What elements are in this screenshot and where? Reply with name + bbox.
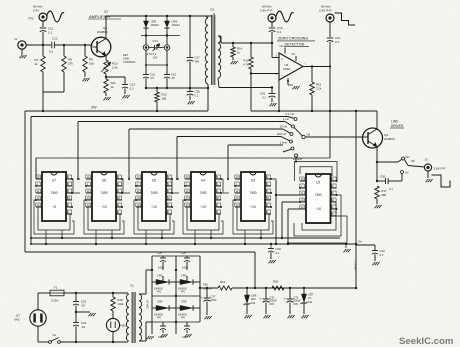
ground at C18 [188, 95, 195, 104]
svg-text:VAC: VAC [14, 317, 20, 321]
wire U3 output to U2 wrap [271, 179, 276, 181]
op-amp top pin NC [280, 44, 286, 54]
svg-text:C25: C25 [157, 251, 162, 255]
svg-text:GAIN: GAIN [123, 56, 129, 60]
svg-text:7490: 7490 [150, 191, 157, 195]
net 1Hz line [78, 117, 290, 179]
net 0.1Hz line [31, 112, 295, 244]
svg-text:1W: 1W [308, 300, 312, 304]
bridge low tie [152, 321, 200, 323]
svg-text:1 kHz: 1 kHz [280, 141, 288, 145]
switch S3 DC contact [377, 155, 410, 162]
svg-text:U5: U5 [285, 63, 289, 67]
svg-text:U6: U6 [102, 179, 106, 183]
bridge rail mid [175, 256, 177, 334]
svg-text:24 VAC: 24 VAC [146, 300, 150, 309]
svg-text:CONTROL: CONTROL [123, 60, 136, 64]
wire CR9 down [166, 28, 168, 45]
IC U4 7490 divider [191, 172, 215, 221]
capacitor C32 [259, 288, 277, 306]
svg-text:0.4V: 0.4V [33, 8, 40, 12]
wire TP3 to C19 [271, 22, 273, 28]
svg-text:1N914: 1N914 [172, 23, 181, 27]
svg-text:+: + [281, 57, 283, 61]
svg-text:÷10: ÷10 [200, 205, 206, 209]
wire C17 down [189, 61, 191, 88]
wire 20V bus corner to Q3 collector [376, 111, 378, 129]
switch S2 contact 1kHz [283, 147, 294, 152]
capacitor C11 [40, 27, 54, 35]
zero crossing detector title [277, 37, 315, 47]
wire C19 to plus input [271, 32, 279, 58]
svg-text:7490: 7490 [315, 193, 322, 197]
ground at J1 [20, 49, 27, 58]
resistor R16 [310, 67, 322, 96]
IC U7 7490 divider [42, 172, 66, 221]
IC U4 pin stubs [184, 175, 222, 214]
capacitor bridge lower left [158, 322, 166, 339]
wire U2 under-loop b [294, 195, 341, 236]
wire plug bottom to S1 [38, 326, 49, 342]
capacitor C24 [73, 321, 87, 329]
svg-text:0.25A: 0.25A [51, 298, 58, 302]
svg-text:CR6: CR6 [251, 294, 257, 298]
transistor Q3 [363, 128, 395, 148]
wire jack to ground [426, 171, 433, 182]
diode CR9 [164, 16, 180, 28]
capacitor bridge lower right [182, 322, 190, 339]
diode CR4 [152, 299, 176, 319]
wire R13 bottom to bus corner [250, 74, 252, 112]
capacitor C30 [377, 162, 402, 191]
wire mid tie [145, 87, 208, 89]
wire T1 secondary bottom to bridge [139, 322, 152, 341]
bus lower B1 [30, 237, 340, 239]
IC U7 stubs to buses [45, 230, 63, 245]
wire Q3 emitter down [376, 147, 378, 164]
svg-text:0.1: 0.1 [276, 251, 280, 255]
capacitor C21 [327, 36, 341, 44]
ground at R14 [231, 57, 238, 64]
wire T2 secondary bottom [218, 78, 219, 88]
bus 20V left segment [25, 106, 208, 111]
svg-text:+: + [259, 297, 261, 301]
ground at C27 [205, 302, 212, 320]
svg-text:LINE: LINE [391, 119, 398, 123]
svg-text:1W: 1W [251, 301, 255, 305]
bus lower B3 [25, 252, 256, 289]
bus 20V right segment [251, 110, 377, 112]
op-amp ground pin [287, 78, 300, 89]
capacitor C15 [143, 72, 155, 80]
wire stage coupling U7-U6 [72, 178, 80, 193]
svg-text:ZERO CROSSING: ZERO CROSSING [278, 37, 308, 41]
wire C21 to output node [329, 42, 331, 67]
trimmer range label [147, 53, 158, 59]
svg-text:7490: 7490 [199, 191, 206, 195]
ground bridge lower left [161, 330, 168, 338]
IC U2 7490 divider [306, 174, 331, 223]
net 100Hz line [177, 132, 287, 179]
wire clock drop to U7 [36, 158, 42, 179]
transformer T2 label [210, 8, 214, 16]
svg-text:2.8V P-P: 2.8V P-P [260, 8, 272, 12]
svg-text:−: − [281, 73, 283, 77]
bridge rail right [199, 256, 201, 322]
svg-text:390: 390 [195, 59, 200, 63]
capacitor C17 [187, 16, 200, 63]
svg-text:C27: C27 [211, 294, 216, 298]
node Q4 emitter junction [105, 74, 107, 79]
trimmer capacitor C14 [149, 39, 165, 51]
transformer T1 secondary [139, 294, 142, 341]
svg-text:÷10: ÷10 [101, 205, 107, 209]
wire U2 left pin 10 feed [281, 202, 300, 239]
svg-text:2N3830: 2N3830 [384, 137, 395, 141]
ground at CR6 [245, 304, 252, 318]
svg-text:.06: .06 [171, 76, 175, 80]
svg-text:DRIVER: DRIVER [391, 124, 404, 128]
supply output label [203, 283, 212, 291]
wire stage coupling U5-U4 [172, 178, 179, 193]
switch S2 contact 10Hz [283, 129, 293, 136]
svg-text:20V: 20V [91, 106, 98, 110]
net 1kHz line [228, 141, 288, 179]
resistor R19 [218, 280, 232, 290]
ground at C20 [270, 98, 277, 107]
switch S2 contact 10kHz [295, 154, 298, 158]
resistor R8 [62, 45, 74, 72]
wire caps to tie [146, 78, 167, 88]
resistor R12 [155, 88, 167, 102]
wire T1 secondary top to bridge [139, 270, 152, 294]
ground at R17 [375, 199, 382, 208]
bridge mid tie [151, 269, 201, 297]
IC U2 pin stubs [299, 177, 338, 216]
svg-text:TP2: TP2 [28, 17, 34, 21]
transformer T2 primary [205, 16, 208, 84]
svg-text:0.1: 0.1 [130, 86, 135, 90]
svg-text:25V: 25V [153, 57, 158, 60]
wire output node down to clock rail [329, 67, 331, 159]
bridge top tie [152, 255, 200, 257]
ground at C29 [373, 254, 380, 265]
svg-text:÷10: ÷10 [315, 207, 321, 211]
svg-text:680: 680 [382, 193, 387, 197]
svg-text:DETECTOR: DETECTOR [285, 43, 305, 47]
test point TP3 [260, 5, 276, 22]
IC U6 pin stubs [85, 175, 123, 214]
ground at R11 [104, 93, 111, 100]
svg-text:NE2: NE2 [121, 323, 127, 327]
diode CR8 [143, 16, 159, 28]
svg-text:PIV: PIV [157, 317, 161, 320]
IC U3 stubs to buses [244, 230, 262, 245]
svg-text:+: + [283, 297, 285, 301]
wire U2 top wrap outer [295, 162, 338, 182]
test point TP4 [319, 5, 334, 22]
wire left nest outer [24, 111, 26, 252]
resistor R13 [243, 43, 253, 69]
svg-text:7: 7 [305, 63, 307, 66]
ground stub on B2 [344, 243, 351, 252]
wire R16 to bus [311, 95, 313, 112]
op-amp output pin NC stub [292, 52, 297, 61]
wire secondary bottom run [219, 86, 273, 88]
svg-text:100 Hz: 100 Hz [277, 132, 287, 136]
svg-text:32V: 32V [203, 283, 208, 287]
svg-text:2V: 2V [358, 240, 362, 244]
capacitor C13 [122, 83, 135, 91]
svg-text:100k: 100k [118, 302, 125, 306]
svg-text:S2: S2 [307, 132, 311, 136]
square wave at TP4 [335, 13, 356, 25]
svg-text:.02: .02 [81, 303, 85, 307]
svg-text:C12: C12 [52, 37, 58, 41]
IC U6 stubs to buses [95, 230, 113, 245]
svg-text:CR4: CR4 [157, 299, 163, 303]
svg-text:.04: .04 [150, 76, 154, 80]
svg-text:10 Hz: 10 Hz [279, 125, 287, 129]
resistor R18 [111, 293, 124, 311]
switch S3 common to jack [404, 159, 424, 167]
op-amp bottom pin to bus [278, 80, 280, 112]
IC U5 pin stubs [135, 175, 173, 214]
svg-text:NC: NC [292, 52, 296, 56]
IC U4 reset loop wiring [183, 200, 223, 234]
net 10Hz line [129, 125, 288, 179]
diode CR3 [176, 273, 200, 293]
IC U6 reset loop wiring [84, 200, 124, 234]
svg-text:20V: 20V [294, 302, 299, 306]
ground at C32 [264, 303, 271, 319]
svg-text:1k: 1k [35, 62, 39, 66]
neon lamp NE2 [106, 311, 126, 332]
svg-text:AC: AC [405, 171, 409, 175]
wire C12 to Q4 base [54, 44, 92, 46]
svg-text:CR5: CR5 [181, 299, 187, 303]
wire TP2 to C11 [42, 21, 44, 27]
svg-text:2000: 2000 [211, 298, 217, 302]
svg-text:0.1: 0.1 [48, 30, 53, 34]
wire S2 wiper to Q3 base [305, 136, 363, 138]
svg-text:F1: F1 [54, 285, 58, 289]
wire Q4 collector to top rail [105, 16, 107, 39]
wire CR2 CR3 risers [162, 270, 164, 282]
svg-text:20V: 20V [270, 302, 275, 306]
node circle right [164, 45, 169, 50]
svg-text:J3: J3 [425, 158, 428, 162]
output level label [434, 166, 446, 170]
transformer T1 label [130, 284, 134, 288]
wire C15 column down [166, 50, 168, 74]
wire cap stubs top [163, 264, 187, 282]
svg-text:NC: NC [280, 44, 284, 48]
capacitor C33 [283, 288, 301, 306]
diode CR5 [176, 299, 200, 319]
ground bridge lower right [185, 330, 192, 338]
capacitor C26 [181, 251, 190, 269]
svg-text:2.2k: 2.2k [316, 86, 322, 90]
svg-text:SET: SET [123, 53, 128, 57]
IC U5 7490 divider [142, 172, 166, 221]
square wave at J3 [432, 175, 451, 187]
input jack J1 [14, 37, 26, 49]
svg-text:PIV: PIV [157, 291, 161, 294]
switch S2 wiper [294, 128, 310, 139]
resistor R7 [35, 45, 46, 72]
ground between C23 C24 [76, 312, 96, 316]
resistor R9 [83, 45, 95, 72]
output jack J3 [424, 158, 431, 172]
svg-text:R20: R20 [273, 280, 279, 284]
wire R8 bottom [42, 72, 64, 112]
net 10kHz label [293, 157, 303, 161]
svg-text:S1: S1 [53, 333, 57, 337]
capacitor C28 on B2 [268, 243, 281, 255]
net 2V label [358, 240, 362, 244]
transistor Q4 [91, 26, 111, 57]
svg-text:0.1: 0.1 [389, 187, 393, 191]
wire 2V extension [356, 245, 375, 250]
wire plug top [38, 293, 50, 310]
svg-text:100: 100 [162, 96, 167, 100]
wire T2 primary bottom [207, 84, 209, 111]
switch S3 AC contact [401, 171, 409, 175]
fuse F1 [50, 285, 64, 302]
svg-text:0.1: 0.1 [380, 253, 384, 257]
resistor R20 [272, 280, 284, 290]
bus lower B2 [30, 243, 356, 245]
capacitor C27 [200, 287, 217, 302]
zener CR6 [244, 288, 257, 305]
capacitor C20 [260, 88, 276, 100]
amplifier stage title [88, 10, 121, 19]
svg-text:1k: 1k [111, 85, 115, 89]
wire R12 to bus [156, 102, 158, 112]
svg-text:2V: 2V [308, 296, 311, 300]
svg-text:0.1: 0.1 [335, 40, 340, 44]
svg-text:CR3: CR3 [181, 273, 187, 277]
wire U2 under-loop c [288, 216, 347, 243]
svg-text:C14: C14 [153, 39, 159, 43]
svg-text:PIV: PIV [181, 317, 185, 320]
svg-text:4.7k: 4.7k [243, 62, 249, 66]
SeekIC watermark [399, 336, 453, 347]
svg-text:.02: .02 [81, 325, 85, 329]
svg-text:7490: 7490 [50, 191, 57, 195]
wire emitter branch to C13 [106, 77, 125, 84]
AC plug [14, 310, 46, 326]
IC U7 pin stubs [35, 175, 73, 214]
IC U4 stubs to buses [194, 230, 212, 245]
potentiometer R10 gain [101, 56, 118, 75]
svg-text:÷10: ÷10 [250, 205, 256, 209]
IC U5 reset loop wiring [134, 200, 174, 234]
switch S2 contact 0.1Hz [288, 117, 297, 121]
transformer T2 core [212, 15, 215, 85]
capacitor C29 [372, 249, 385, 257]
wire U2 left pin 12 feed [287, 209, 300, 245]
svg-text:1k: 1k [237, 50, 241, 54]
op-amp U5 comparator [276, 53, 307, 80]
top rail 20V feed [106, 15, 214, 17]
svg-text:SeekIC.com: SeekIC.com [399, 336, 453, 347]
svg-text:2.8V P-P: 2.8V P-P [434, 166, 446, 170]
svg-text:10k: 10k [89, 62, 94, 66]
svg-text:S3: S3 [411, 159, 415, 163]
wire NE2 to bottom [112, 332, 114, 344]
ground at C33 [288, 303, 295, 319]
svg-text:370 mA: 370 mA [354, 261, 358, 270]
label 24 VAC [146, 300, 150, 309]
svg-text:PIV: PIV [181, 291, 185, 294]
ground at R9 [83, 72, 90, 81]
zener CR7 [301, 288, 314, 304]
wire 10kHz contact to U2 wrap [295, 157, 297, 162]
svg-text:R19: R19 [220, 280, 226, 284]
ground at CR7 [302, 303, 309, 318]
svg-text:2.8V P-P: 2.8V P-P [319, 8, 331, 12]
svg-text:T2: T2 [210, 8, 214, 12]
transformer T2 secondary [218, 36, 221, 78]
wire stage coupling U6-U5 [122, 178, 130, 193]
transformer T1 primary [126, 294, 129, 341]
svg-text:U4: U4 [201, 179, 205, 183]
resistor R17 [375, 180, 387, 199]
svg-text:T1: T1 [130, 284, 134, 288]
line driver title [390, 119, 404, 128]
resistor R11 [104, 79, 116, 93]
svg-text:1 Hz: 1 Hz [283, 117, 289, 121]
current label 370 mA [354, 261, 358, 270]
resistor R14 [231, 43, 243, 57]
capacitor C23 [73, 293, 87, 307]
IC U3 reset loop wiring [233, 200, 273, 234]
svg-text:CR2: CR2 [157, 273, 163, 277]
IC U7 reset loop wiring [34, 200, 74, 234]
capacitor C25 [157, 251, 166, 269]
svg-text:÷10: ÷10 [151, 205, 157, 209]
svg-text:0.1: 0.1 [262, 95, 266, 99]
svg-text:C15: C15 [150, 72, 155, 76]
wire U2 top wrap inner [300, 167, 332, 176]
wire clock rail to U7 input [36, 157, 330, 159]
svg-text:1N914: 1N914 [151, 23, 160, 27]
wire C11 to input node [42, 32, 44, 47]
svg-text:C26: C26 [181, 251, 186, 255]
capacitor C12 [49, 37, 58, 54]
svg-text:0.1: 0.1 [277, 30, 282, 34]
sine wave symbol at TP2 [47, 11, 65, 22]
IC U6 7490 divider [92, 172, 116, 221]
wire R7 to rail [42, 72, 44, 92]
wire TP4 to C21 [329, 22, 331, 38]
switch S1 [49, 333, 61, 343]
wire cross tie [141, 34, 180, 36]
gain control label [123, 53, 136, 64]
transformer T1 core [132, 292, 135, 343]
svg-text:0.1 Hz: 0.1 Hz [286, 112, 295, 116]
svg-text:2.5k: 2.5k [112, 66, 118, 70]
wire C24 to bottom [75, 326, 77, 343]
wire U2 under-loop a [302, 202, 336, 230]
wire lower tie [145, 64, 168, 66]
sine wave at TP3 [276, 11, 294, 22]
svg-text:CR7: CR7 [308, 293, 314, 297]
wire U5 output [303, 65, 331, 67]
capacitor C18 [187, 88, 200, 97]
